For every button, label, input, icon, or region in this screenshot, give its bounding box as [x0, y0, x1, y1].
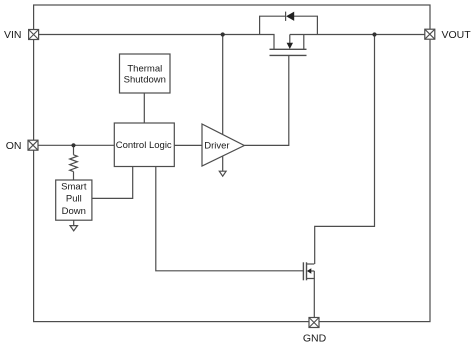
- svg-text:Control Logic: Control Logic: [116, 140, 172, 151]
- svg-text:ON: ON: [6, 140, 22, 152]
- svg-text:Smart: Smart: [61, 182, 87, 193]
- svg-text:Shutdown: Shutdown: [124, 75, 166, 86]
- svg-text:Thermal: Thermal: [127, 63, 162, 74]
- svg-text:Driver: Driver: [204, 140, 229, 151]
- svg-text:Pull: Pull: [66, 194, 82, 205]
- svg-text:GND: GND: [303, 333, 327, 345]
- svg-text:VIN: VIN: [4, 29, 22, 41]
- svg-text:VOUT: VOUT: [442, 29, 472, 41]
- svg-text:Down: Down: [62, 206, 86, 217]
